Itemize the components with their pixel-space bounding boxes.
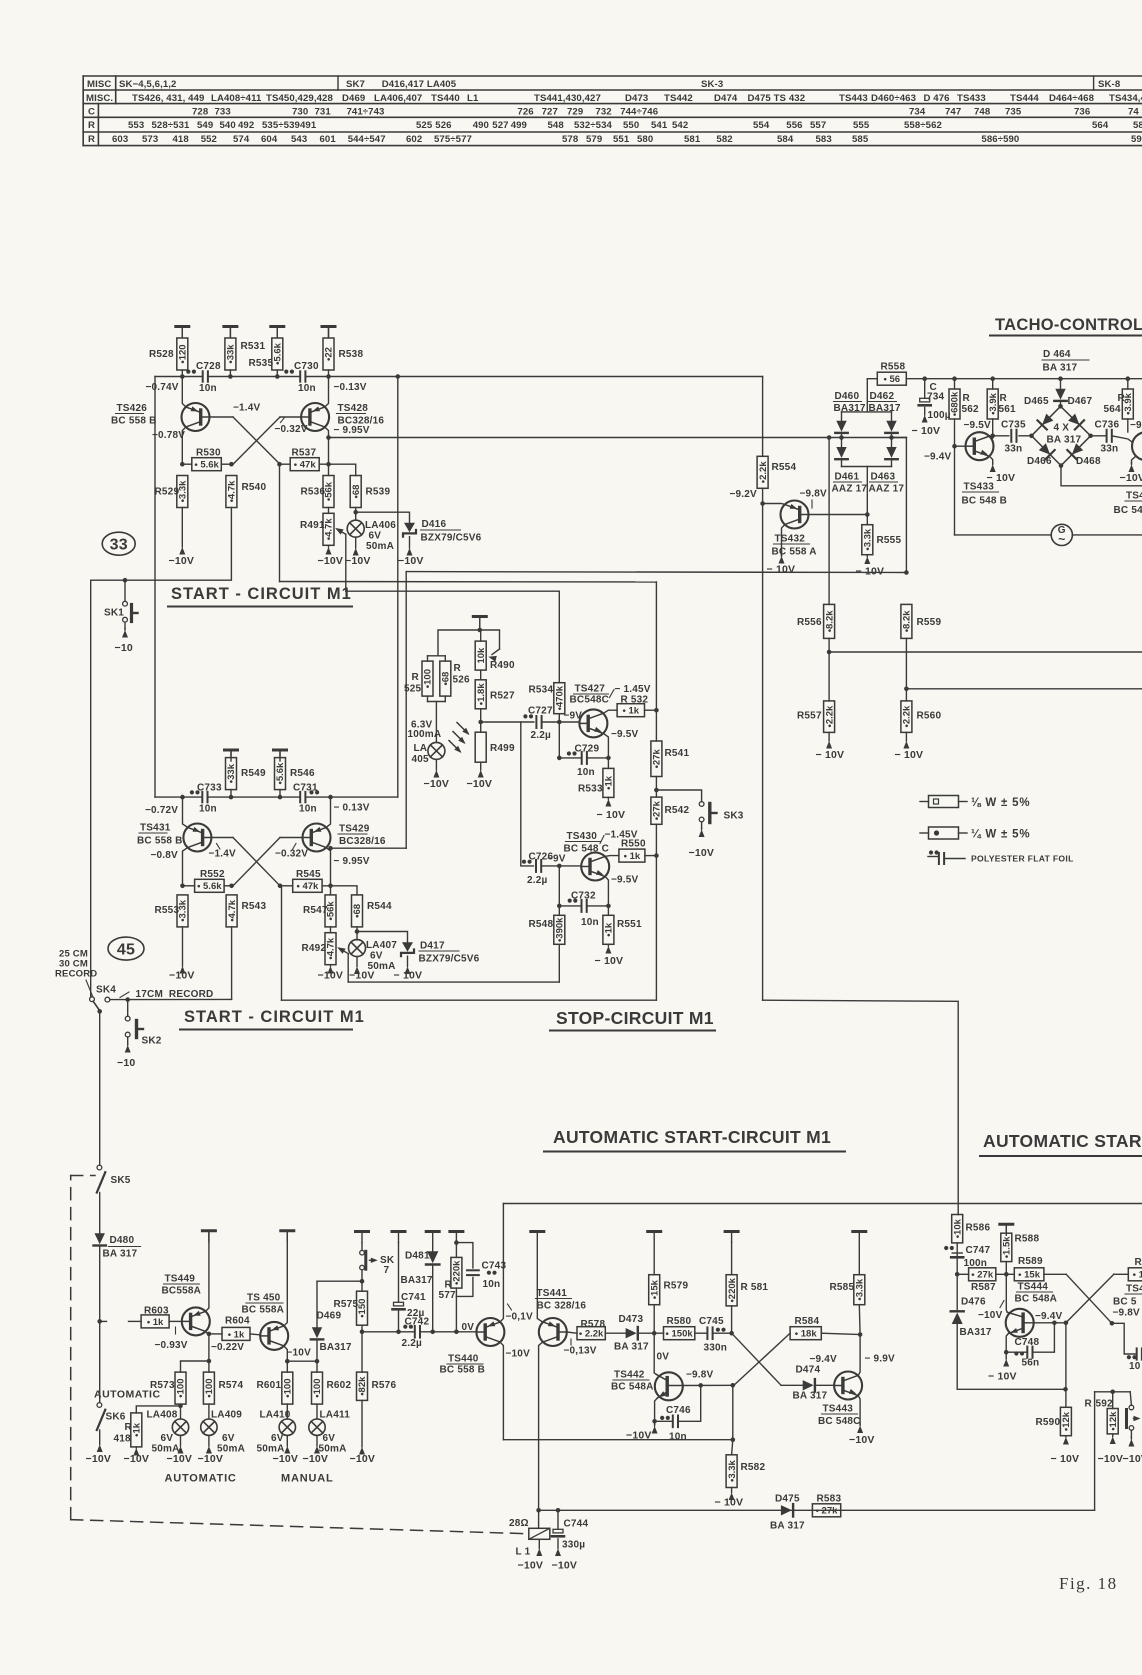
emitter arrow TS433 [980,450,988,455]
svg-text:− 10V: − 10V [597,809,626,821]
svg-text:•12k: •12k [1061,1411,1072,1431]
svg-text:TS440: TS440 [431,93,460,104]
edge switch actuator bar [1125,1410,1128,1428]
svg-text:−10V: −10V [86,1453,112,1465]
ground arrow R529 ground [181,508,183,548]
junction R582/box wire [731,1437,736,1442]
svg-text:BC 328/16: BC 328/16 [537,1301,587,1312]
label underline TS430 [566,841,601,843]
TS434 emitter drop [1132,457,1136,464]
svg-text:TS450,429,428: TS450,429,428 [266,93,333,104]
D461 stem upper [841,438,843,447]
junction R552/R543/diag [229,884,234,889]
svg-text:551: 551 [613,134,630,145]
polyester marker dots C748 [1014,1351,1018,1355]
svg-text:SK−4,5,6,1,2: SK−4,5,6,1,2 [119,79,176,90]
svg-text:732: 732 [595,107,611,118]
bridge node left [1029,434,1034,439]
svg-text:• 2.2k: • 2.2k [579,1329,604,1340]
bottom drive wire [539,1509,1095,1511]
junction D481/row [430,1330,435,1335]
junction rail/R538/TS428 emitter [326,374,331,379]
SK1 contact upper [123,601,128,606]
pointer tick [508,1304,512,1310]
svg-text:BC 54: BC 54 [1114,505,1142,516]
svg-text:C: C [88,107,95,118]
resistor R564 [1122,389,1133,419]
edge switch stem [1130,1392,1131,1405]
junction collector node [326,435,331,440]
junction stop top wire / R559 column [904,570,909,575]
R539 to lamp node [355,508,357,521]
svg-text:− 10V: − 10V [715,1497,744,1509]
emitter arrow TS449 [193,1311,201,1316]
TS431 emitter riser [183,797,188,827]
junction R559/R560 wire [904,687,909,692]
resistor R490 [475,641,486,670]
svg-text:562: 562 [962,404,980,415]
wire C746 left [655,1420,673,1422]
edge switch contact lower [1129,1426,1134,1431]
junction D469/R602 row [315,1359,320,1364]
svg-text:~: ~ [1058,532,1065,546]
parallel pair bracket top [428,655,446,657]
svg-text:526: 526 [453,675,471,686]
svg-text:BA 317: BA 317 [793,1391,828,1402]
svg-text:R547: R547 [303,905,328,916]
resistor R575 [357,1291,368,1325]
collector node wire to diode bridge [329,437,907,439]
stem R528 to supply [181,327,183,338]
wire C726 feed drop [521,722,534,866]
capacitor C728 [202,371,204,381]
svg-text:BA317: BA317 [834,403,866,414]
emitter arrow TS428 [313,406,321,411]
svg-text:TS430: TS430 [567,831,598,842]
svg-text:TS444: TS444 [1018,1282,1049,1293]
svg-text:BA 317: BA 317 [1043,363,1078,374]
resistor R525 [422,661,433,696]
svg-text:BC 558 B: BC 558 B [111,416,157,427]
svg-text:TS434,4: TS434,4 [1109,93,1142,104]
resistor R545 [293,879,322,892]
wiper arrow of R492 (light arrow) [339,948,348,953]
title underline [168,606,352,608]
svg-text:−10V: −10V [849,1434,875,1446]
label underline TS427 [574,693,609,695]
wiper arrow of R491 (light arrow) [337,529,346,534]
svg-text:74: 74 [1128,107,1139,118]
stem R561 [992,379,994,389]
svg-text:•470k: •470k [555,685,566,710]
svg-text:BA 317: BA 317 [103,1249,138,1260]
R544 to lamp node [356,927,358,940]
svg-text:R582: R582 [741,1462,766,1473]
junction rail/R561 [990,376,995,381]
SK3 contact lower [699,817,704,822]
ground arrow C744 ground [557,1539,559,1549]
bridge bottom drop [1061,466,1142,486]
polyester marker dots C732 [568,899,572,903]
svg-text:−0.74V: −0.74V [146,382,179,393]
svg-text:•5.6k: •5.6k [273,342,284,365]
junction TS432 emitter [760,501,765,506]
rail segment middle [208,376,300,378]
wire R559 node to right [906,688,1142,690]
edge switch lower stem [1130,1430,1132,1437]
svg-text:R534: R534 [529,685,554,696]
wiper tail drop [345,534,347,591]
svg-text:542: 542 [672,120,688,131]
ground arrow D417 ground [407,956,409,966]
label underline TS444 [1017,1291,1053,1293]
supply rail T [202,1229,215,1232]
ground arrow R582 ground [731,1488,733,1493]
svg-text:R: R [88,120,95,131]
ground arrow TS432 ground [781,550,783,556]
svg-text:TS432: TS432 [775,534,806,545]
resistor R573 [175,1372,186,1404]
svg-text:LA406: LA406 [365,520,396,531]
D462 stem upper [891,412,893,421]
junction rail/R564 [1126,376,1131,381]
svg-text:SK2: SK2 [142,1036,162,1047]
svg-text:⅛ W ± 5%: ⅛ W ± 5% [971,797,1030,809]
svg-text:50mA: 50mA [366,541,394,552]
svg-text:R560: R560 [917,711,942,722]
svg-text:R558: R558 [881,362,906,373]
polyester marker dots C733 [190,790,194,794]
resistor R577 [451,1257,462,1288]
svg-text:−10V: −10V [167,1453,193,1465]
TS449 collector drop [206,1332,209,1373]
transistor TS450 [260,1322,288,1350]
label underline TS429 [338,833,367,835]
polyester marker dots C749 [1127,1355,1131,1359]
label underline TS433 [963,491,999,493]
svg-text:TS440: TS440 [448,1354,479,1365]
supply rail T [224,325,237,328]
svg-text:0V: 0V [657,1352,670,1363]
stem R588 upper [1005,1224,1007,1233]
stem R573-LA408 [180,1404,182,1419]
svg-text:− 10V: − 10V [767,564,796,576]
svg-text:D480: D480 [110,1235,135,1246]
diode D468 on bridge edge [1072,443,1083,454]
wire bridge right to C736 [1091,435,1107,437]
resistor R591 [1128,1268,1142,1281]
resistor R585 [854,1275,865,1305]
junction SK4 common [97,1009,102,1014]
svg-text:578: 578 [562,134,579,145]
label underline D463 [870,481,898,483]
junction C741/row [396,1330,401,1335]
capacitor C727 [535,716,537,728]
svg-text:100mA: 100mA [408,729,442,740]
svg-text:729: 729 [567,107,583,118]
svg-text:D474: D474 [714,93,738,104]
TS450 emitter riser [284,1231,287,1326]
svg-text:−10V: −10V [169,555,195,567]
diode D464 [1055,389,1065,400]
SK4 wire to R543 [110,998,232,1000]
ground arrow R592 ground [1112,1434,1114,1437]
svg-text:BC 558 A: BC 558 A [772,547,817,558]
parts location table [83,75,1142,77]
junction TS429 collector/R547 [328,884,333,889]
junction TS449 collector/R604 [207,1332,212,1337]
stem R602-LA411 [316,1404,318,1419]
junction R577/C743 top [454,1240,459,1245]
diode D476 [952,1313,963,1325]
cross diag B lower [233,838,280,886]
svg-text:10: 10 [1129,1361,1141,1372]
svg-text:R585: R585 [830,1282,855,1293]
svg-text:R: R [1135,1257,1142,1268]
svg-text:491: 491 [300,120,317,131]
svg-text:R499: R499 [490,743,515,754]
TS427 emitter drop [604,734,609,769]
svg-text:R601: R601 [257,1380,282,1391]
svg-text:BC 548A: BC 548A [1015,1294,1058,1305]
polyester marker dots C747 [944,1246,948,1250]
rail segment right [305,376,762,378]
svg-text:R533: R533 [578,784,603,795]
svg-text:R531: R531 [241,341,266,352]
junction rail/R528/TS426 emitter [180,374,185,379]
svg-text:564: 564 [1104,404,1122,415]
bridge node top [1058,404,1063,409]
junction SK2 tap [125,997,130,1002]
resistor R576 [357,1372,368,1400]
emitter arrow TS450 [272,1325,280,1330]
transistor TS431 [183,824,211,852]
resistor R537 [290,458,319,471]
TS427 collector wire [604,710,618,713]
svg-text:MISC.: MISC. [86,93,113,104]
stem R490-R527 [480,670,482,680]
capacitor C748 [1026,1347,1028,1358]
polyester marker dots C742 [403,1325,407,1329]
junction R584/R585/TS443 collector [858,1332,863,1337]
junction D476 wire/R590 column [1063,1387,1068,1392]
resistor R527 [475,680,486,709]
left rail drop wire [154,377,156,798]
emitter arrow TS431 [193,827,201,832]
svg-text:R556: R556 [797,617,822,628]
resistor R578 [577,1327,605,1340]
label underline TS449 [164,1283,200,1285]
svg-text:6V: 6V [369,531,382,542]
cross diag B right [1066,1274,1114,1323]
ground arrow R555 ground [866,555,868,557]
SK1 lower stem [124,622,126,628]
svg-text:D 476: D 476 [924,93,950,104]
svg-text:490: 490 [473,120,489,131]
transistor TS430 [581,853,609,881]
svg-text:C730: C730 [294,361,319,372]
junction R548 column/TS430 base [557,864,562,869]
svg-text:C741: C741 [401,1292,426,1303]
svg-text:R540: R540 [242,482,267,493]
junction TS445 base node [1110,1321,1115,1326]
svg-text:556: 556 [786,120,802,131]
junction rail/R562 [952,376,957,381]
resistor R580 [664,1327,695,1340]
svg-text:−10V: −10V [467,778,493,790]
junction R532/R541 column [654,708,659,713]
SK3 contact upper [699,802,704,807]
svg-text:•3.3k: •3.3k [727,1459,738,1482]
TS442 emitter drop [655,1398,658,1424]
TS429 collector to R547 [330,886,332,895]
svg-text:7: 7 [384,1265,390,1276]
wire C745 to R581 node [713,1332,732,1334]
svg-text:BC 548 B: BC 548 B [962,496,1008,507]
svg-text:6V: 6V [323,1433,336,1444]
svg-text:R528: R528 [149,349,174,360]
supply rail T [274,749,287,752]
stem R579 lower [653,1305,655,1334]
svg-text:• 47k: • 47k [294,460,317,471]
svg-text:•2.2k: •2.2k [758,461,769,484]
svg-text:−10V: −10V [318,555,344,567]
svg-text:−9.5V: −9.5V [611,729,639,740]
svg-text:6V: 6V [222,1433,235,1444]
svg-text:561: 561 [999,404,1017,415]
stem D476 lower [957,1324,1065,1389]
svg-text:•4.7k: •4.7k [324,518,335,541]
svg-text:D416,417 LA405: D416,417 LA405 [382,79,457,90]
table left border [82,76,84,146]
TS430 collector wire [605,855,619,858]
legend 1/8W resistor symbol [920,801,929,803]
TS428 emitter riser [325,377,329,407]
svg-text:TS441: TS441 [537,1288,568,1299]
svg-text:D481: D481 [405,1251,430,1262]
stem R577 lower [455,1288,457,1332]
SK1 actuator bar [130,605,133,622]
row R575 to C742 [362,1331,415,1333]
pointer to SK4 [86,980,93,996]
svg-text:22µ: 22µ [407,1308,425,1319]
svg-text:604: 604 [261,134,278,145]
svg-text:D469: D469 [342,93,365,104]
svg-text:−1.4V: −1.4V [233,403,261,414]
stop riser vertical [405,572,407,849]
wire to zener D416 [356,512,410,522]
svg-text:•22: •22 [324,347,335,361]
svg-text:LA408÷411: LA408÷411 [211,93,262,104]
resistor R543 [226,895,237,927]
supply rail T [450,1230,463,1233]
svg-text:C748: C748 [1015,1337,1040,1348]
pointer tick [281,418,285,423]
stem D476 upper [956,1274,958,1309]
svg-text:R: R [1085,1399,1093,1410]
resistor R531 [225,338,236,370]
svg-text:− 10V: − 10V [394,970,423,982]
pointer tick [175,1327,177,1334]
svg-text:• 1: • 1 [1133,1270,1142,1281]
capacitor C729 [581,752,583,764]
svg-text:− 10V: − 10V [816,749,845,761]
wire R578 to D473 [605,1332,626,1334]
TS444 emitter drop [1006,1334,1008,1358]
label underline D464 [1042,359,1089,361]
label underline D462 [869,401,897,403]
resistor R541 [651,741,662,777]
svg-text:•3.3k: •3.3k [855,1278,866,1301]
stem R490 supply [480,630,482,641]
wire C746 right [678,1385,701,1421]
svg-text:−0.32V: −0.32V [275,424,308,435]
wire R545 to R544 [322,886,357,895]
svg-text:10k: 10k [476,647,487,664]
wire collector to R604 [209,1333,222,1335]
svg-text:−10V: −10V [398,555,424,567]
svg-text:•68: •68 [352,904,363,918]
svg-text:2.2µ: 2.2µ [402,1338,423,1349]
svg-text:548: 548 [548,120,565,131]
svg-text:R: R [1000,393,1008,404]
svg-text:−9.4V: −9.4V [924,452,952,463]
resistor R589 [1014,1268,1044,1281]
resistor R556 [824,604,835,638]
resistor R586 [952,1215,963,1243]
svg-text:R555: R555 [877,535,902,546]
wire supply to R490 wiper [480,630,500,649]
stem R527 to node [480,709,482,732]
svg-text:R551: R551 [617,919,642,930]
electrolytic capacitor C741 [394,1302,404,1306]
pointer tick [570,1339,572,1345]
svg-text:LA411: LA411 [320,1410,351,1421]
stem R564 [1127,379,1129,389]
svg-text:2.2µ: 2.2µ [531,730,552,741]
rail2 segment left [155,796,202,798]
junction TS444 emitter/C748 [1004,1350,1009,1355]
generator G circle [1051,524,1072,545]
ground arrow LA409 ground [208,1435,210,1446]
svg-text:• 1k: • 1k [228,1329,245,1340]
rail2 segment right [305,796,397,798]
TS426 collector drop [182,427,185,464]
svg-text:AUTOMATIC START-CIRCUIT M1: AUTOMATIC START-CIRCUIT M1 [553,1127,831,1147]
svg-text:R536: R536 [301,487,326,498]
svg-text:D473: D473 [619,1314,644,1325]
D462 stem lower [891,433,893,438]
SK2 contact lower [125,1032,130,1037]
svg-text:C744: C744 [564,1519,589,1530]
junction C748 riser/base [1052,1321,1057,1326]
svg-text:− 0.13V: − 0.13V [334,803,370,814]
junction bridge mid left [839,435,844,440]
junction R581/C745/diag [729,1331,734,1336]
svg-text:557: 557 [810,120,826,131]
resistor R549 [226,758,237,790]
TS431 collector drop [183,848,188,886]
resistor R492 [325,933,336,965]
svg-text:R542: R542 [665,805,690,816]
capacitor legend cap [938,853,940,864]
TS440 collector drop [500,1342,503,1440]
transistor TS426 [182,403,210,431]
diode D466 on bridge edge [1039,443,1050,454]
bridge bottom bracket [842,466,892,468]
capacitor C749 [1136,1348,1138,1359]
wire D473 to node [638,1332,664,1334]
